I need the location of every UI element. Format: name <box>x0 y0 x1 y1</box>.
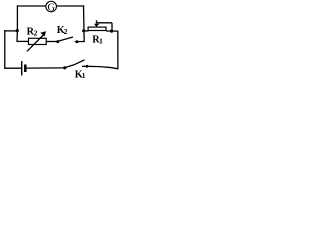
svg-text:1: 1 <box>99 37 103 46</box>
svg-text:1: 1 <box>82 71 86 78</box>
svg-text:G: G <box>48 3 56 14</box>
svg-text:2: 2 <box>64 27 68 36</box>
svg-text:2: 2 <box>34 29 38 38</box>
